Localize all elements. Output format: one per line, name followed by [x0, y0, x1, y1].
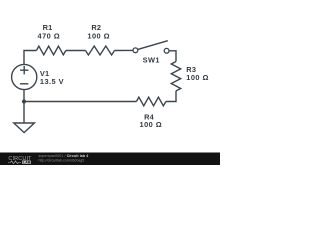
watermark bar	[0, 153, 220, 166]
switch SW1 left terminal	[133, 48, 138, 53]
svg-text:LAB: LAB	[23, 161, 31, 165]
svg-text:13.5 V: 13.5 V	[40, 77, 64, 86]
switch SW1 blade	[138, 41, 168, 50]
svg-text:SW1: SW1	[143, 56, 160, 65]
V1 minus sign	[20, 83, 28, 85]
svg-text:100 Ω: 100 Ω	[87, 31, 110, 40]
svg-text:100 Ω: 100 Ω	[140, 120, 163, 129]
junction node	[22, 99, 26, 103]
svg-text:470 Ω: 470 Ω	[38, 31, 61, 40]
watermark logo zigzag	[8, 161, 21, 164]
resistor R4	[136, 97, 166, 106]
V1 plus sign	[20, 66, 28, 74]
svg-text:http://circuitlab.com/c6cbag5: http://circuitlab.com/c6cbag5	[39, 158, 85, 162]
wire R4 left to junction	[24, 101, 136, 103]
wire R3 bottom to R4 right	[166, 91, 176, 102]
wire junction to ground	[23, 102, 25, 124]
resistor R3	[171, 62, 180, 91]
voltage source V1	[12, 64, 37, 89]
ground	[14, 123, 35, 133]
wire V1 bottom to junction	[23, 90, 25, 102]
wire SW1 to R3 top	[169, 51, 176, 62]
resistor R1	[36, 46, 65, 55]
switch SW1 right terminal	[164, 48, 169, 53]
svg-text:100 Ω: 100 Ω	[186, 73, 209, 82]
wire R1 to R2	[66, 50, 86, 52]
wire R2 to SW1	[115, 49, 134, 51]
resistor R2	[86, 46, 115, 55]
wire from V1 top to top-left corner and right to R1	[24, 51, 36, 65]
watermark logo LAB	[22, 161, 31, 165]
